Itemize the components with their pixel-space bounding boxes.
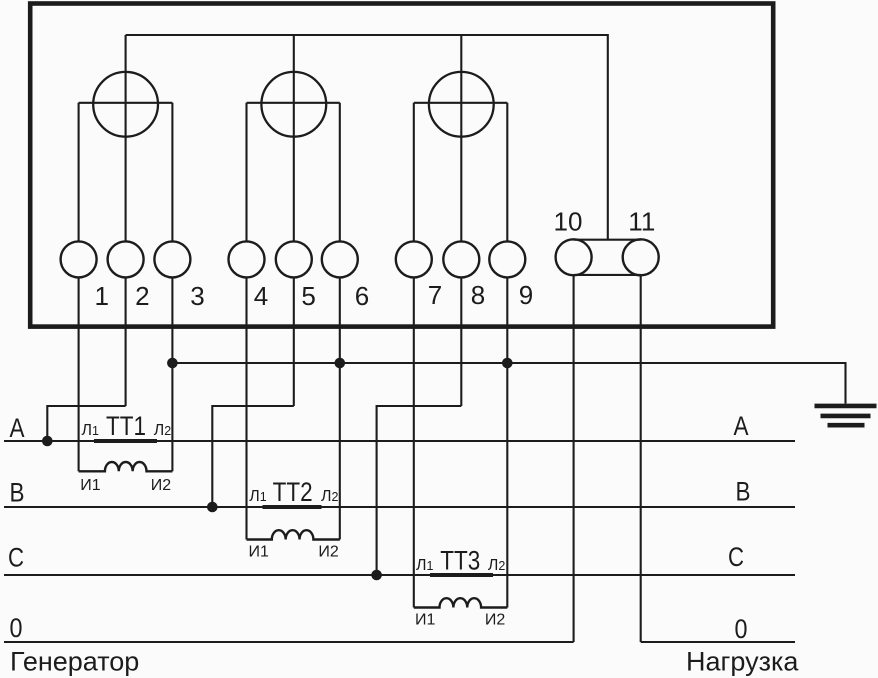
jumper link between terminals 10 and 11 (574, 239, 641, 241)
node: line B tap junction (207, 502, 218, 513)
node: line C tap junction (371, 570, 382, 581)
svg-text:Л1: Л1 (82, 422, 100, 439)
svg-text:1: 1 (94, 281, 108, 311)
svg-text:9: 9 (519, 280, 533, 310)
measuring element W1 (circle) (93, 72, 158, 137)
terminal 5 (276, 241, 312, 277)
wire: terminal 2 down (phase A voltage tap) (125, 277, 127, 406)
svg-text:0: 0 (10, 613, 23, 643)
node: TT2 secondary ground junction (335, 358, 346, 369)
line A (phase A conductor) (4, 440, 795, 442)
svg-text:0: 0 (735, 614, 748, 644)
meter enclosure box (30, 4, 773, 327)
wire: jog from terminal 5 to line B (212, 406, 293, 507)
svg-text:В: В (736, 477, 751, 507)
wire: W3 center vertical (bus to terminal 8) (460, 35, 462, 242)
svg-text:А: А (734, 411, 749, 441)
svg-text:И2: И2 (151, 477, 172, 494)
svg-text:И1: И1 (80, 477, 101, 494)
wire: W3 right drop to terminal 9 (506, 103, 508, 242)
svg-text:4: 4 (254, 281, 268, 311)
wire: terminal 5 down (phase B voltage tap) (293, 277, 295, 406)
svg-text:7: 7 (428, 280, 442, 310)
wire: terminal 6 down to TT2 secondary I2 (339, 277, 341, 539)
svg-text:С: С (728, 542, 744, 572)
wire: terminal 3 down to TT1 secondary I2 (171, 277, 173, 471)
terminal 2 (108, 241, 144, 277)
svg-text:И2: И2 (318, 544, 339, 561)
svg-text:ТТ2: ТТ2 (273, 477, 313, 507)
line 0 neutral, load side (641, 641, 795, 643)
svg-text:Генератор: Генератор (10, 647, 139, 677)
terminal 8 (443, 241, 479, 277)
node: TT3 secondary ground junction (502, 358, 513, 369)
wire: terminal 4 down to TT2 secondary I1 (245, 277, 247, 539)
terminal 9 (489, 241, 525, 277)
svg-text:8: 8 (471, 280, 485, 310)
svg-text:С: С (8, 543, 24, 573)
wire: jog from terminal 8 to line C (377, 406, 462, 575)
transformer TT2 primary bar (263, 505, 322, 509)
terminal 3 (154, 241, 190, 277)
svg-text:5: 5 (301, 281, 315, 311)
transformer TT3 primary bar (430, 573, 493, 577)
wire: W1 center vertical (bus to terminal 2) (125, 35, 127, 242)
terminal 10 (556, 239, 592, 275)
svg-text:В: В (10, 478, 25, 508)
svg-text:И2: И2 (485, 612, 506, 629)
svg-text:ТТ3: ТТ3 (440, 546, 480, 576)
transformer TT1 primary bar (94, 439, 157, 443)
terminal 11 (623, 239, 659, 275)
svg-text:2: 2 (135, 281, 149, 311)
wire: terminal 1 down to TT1 secondary I1 (78, 277, 80, 471)
ground (815, 406, 877, 425)
wire: jog from terminal 2 to line A (47, 406, 125, 441)
transformer TT3 secondary winding (414, 598, 508, 607)
wire: W2 center vertical (bus to terminal 5) (293, 35, 295, 242)
svg-text:11: 11 (628, 207, 655, 237)
svg-text:3: 3 (190, 281, 204, 311)
svg-text:10: 10 (554, 207, 583, 237)
svg-text:6: 6 (355, 281, 369, 311)
line C (phase C conductor) (4, 574, 795, 576)
terminal 4 (229, 241, 265, 277)
wire: W2 left drop to terminal 4 (245, 103, 247, 242)
terminal 7 (396, 241, 432, 277)
node: line A tap junction (42, 436, 53, 447)
wire: terminal 11 down to neutral line 0 (640, 275, 642, 642)
wire: top voltage bus from element 1 to terminals 10-11 feed (126, 35, 608, 240)
transformer TT2 secondary winding (247, 530, 340, 539)
wire: W3 left drop to terminal 7 (413, 103, 415, 242)
wire: grounded secondary bus to earth (172, 363, 845, 404)
svg-text:Л2: Л2 (321, 488, 339, 505)
svg-text:А: А (10, 413, 25, 443)
wire: W1 right drop to terminal 3 (171, 103, 173, 242)
svg-text:Нагрузка: Нагрузка (686, 647, 799, 677)
line B (phase B conductor) (4, 506, 795, 508)
wire: W2 current chord (247, 102, 340, 104)
wire: terminal 10 down to neutral line 0 (573, 275, 575, 642)
svg-text:Л2: Л2 (488, 557, 506, 574)
svg-text:Л2: Л2 (154, 422, 172, 439)
measuring element W2 (circle) (261, 72, 326, 137)
svg-text:И1: И1 (415, 612, 436, 629)
transformer TT1 secondary winding (79, 462, 173, 471)
svg-text:И1: И1 (249, 544, 270, 561)
svg-text:ТТ1: ТТ1 (106, 411, 146, 441)
terminal 1 (61, 241, 97, 277)
svg-text:Л1: Л1 (416, 557, 434, 574)
wire: W1 current chord (79, 102, 173, 104)
wire: W2 right drop to terminal 6 (339, 103, 341, 242)
wire: W3 current chord (414, 102, 508, 104)
wire: terminal 9 down to TT3 secondary I2 (506, 277, 508, 607)
wire: W1 left drop to terminal 1 (78, 103, 80, 242)
measuring element W3 (circle) (429, 72, 494, 137)
node: TT1 secondary ground junction (167, 358, 178, 369)
wire: terminal 8 down (phase C voltage tap) (460, 277, 462, 406)
line 0 neutral, generator side (4, 641, 574, 643)
wire: terminal 7 down to TT3 secondary I1 (413, 277, 415, 607)
svg-text:Л1: Л1 (249, 488, 266, 505)
terminal 6 (322, 241, 358, 277)
